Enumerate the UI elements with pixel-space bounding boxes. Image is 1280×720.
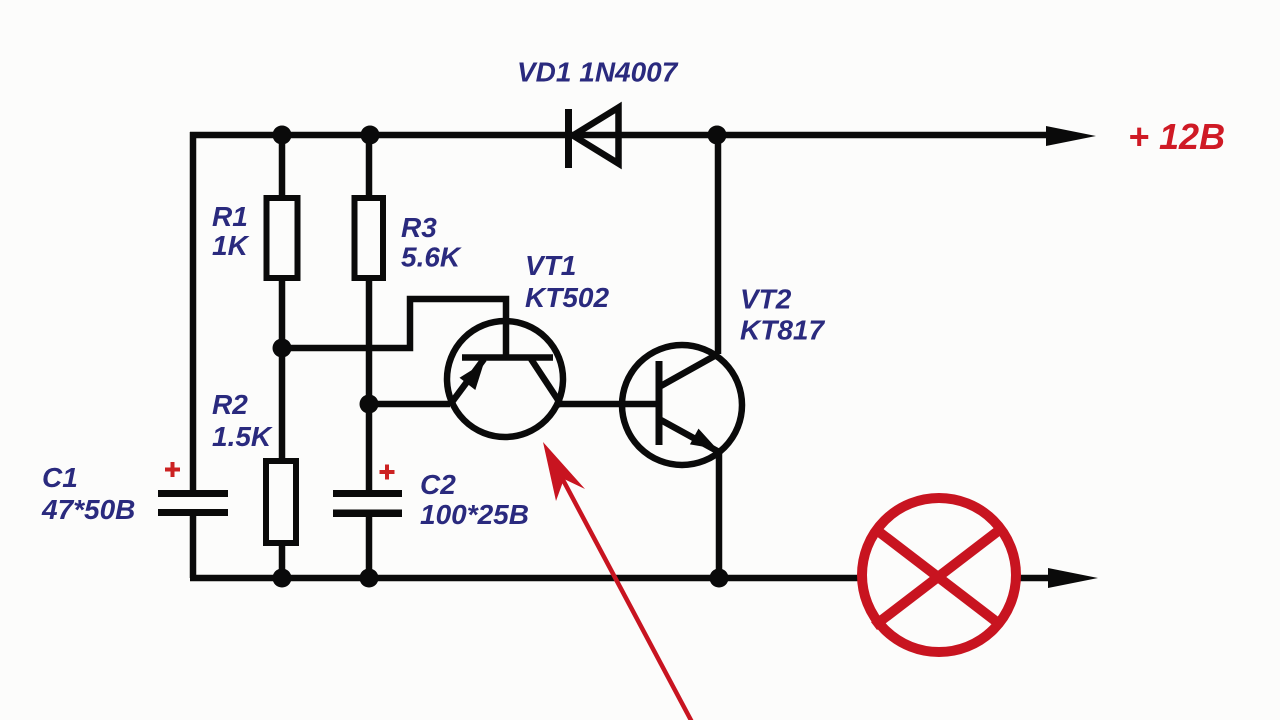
svg-text:100*25B: 100*25B — [420, 499, 529, 530]
svg-text:47*50B: 47*50B — [41, 494, 135, 525]
svg-text:R2: R2 — [212, 389, 248, 420]
svg-text:5.6K: 5.6K — [401, 242, 462, 273]
svg-text:KT817: KT817 — [740, 315, 825, 346]
svg-text:1.5K: 1.5K — [212, 421, 273, 452]
svg-text:VT2: VT2 — [740, 284, 792, 315]
svg-text:VD1 1N4007: VD1 1N4007 — [517, 57, 679, 88]
svg-text:C2: C2 — [420, 469, 456, 500]
svg-text:1K: 1K — [212, 230, 250, 261]
svg-text:C1: C1 — [42, 462, 78, 493]
svg-text:+ 12B: + 12B — [1128, 116, 1225, 157]
svg-text:R3: R3 — [401, 212, 437, 243]
svg-text:VT1: VT1 — [525, 250, 576, 281]
svg-text:R1: R1 — [212, 201, 248, 232]
svg-text:KT502: KT502 — [525, 282, 609, 313]
